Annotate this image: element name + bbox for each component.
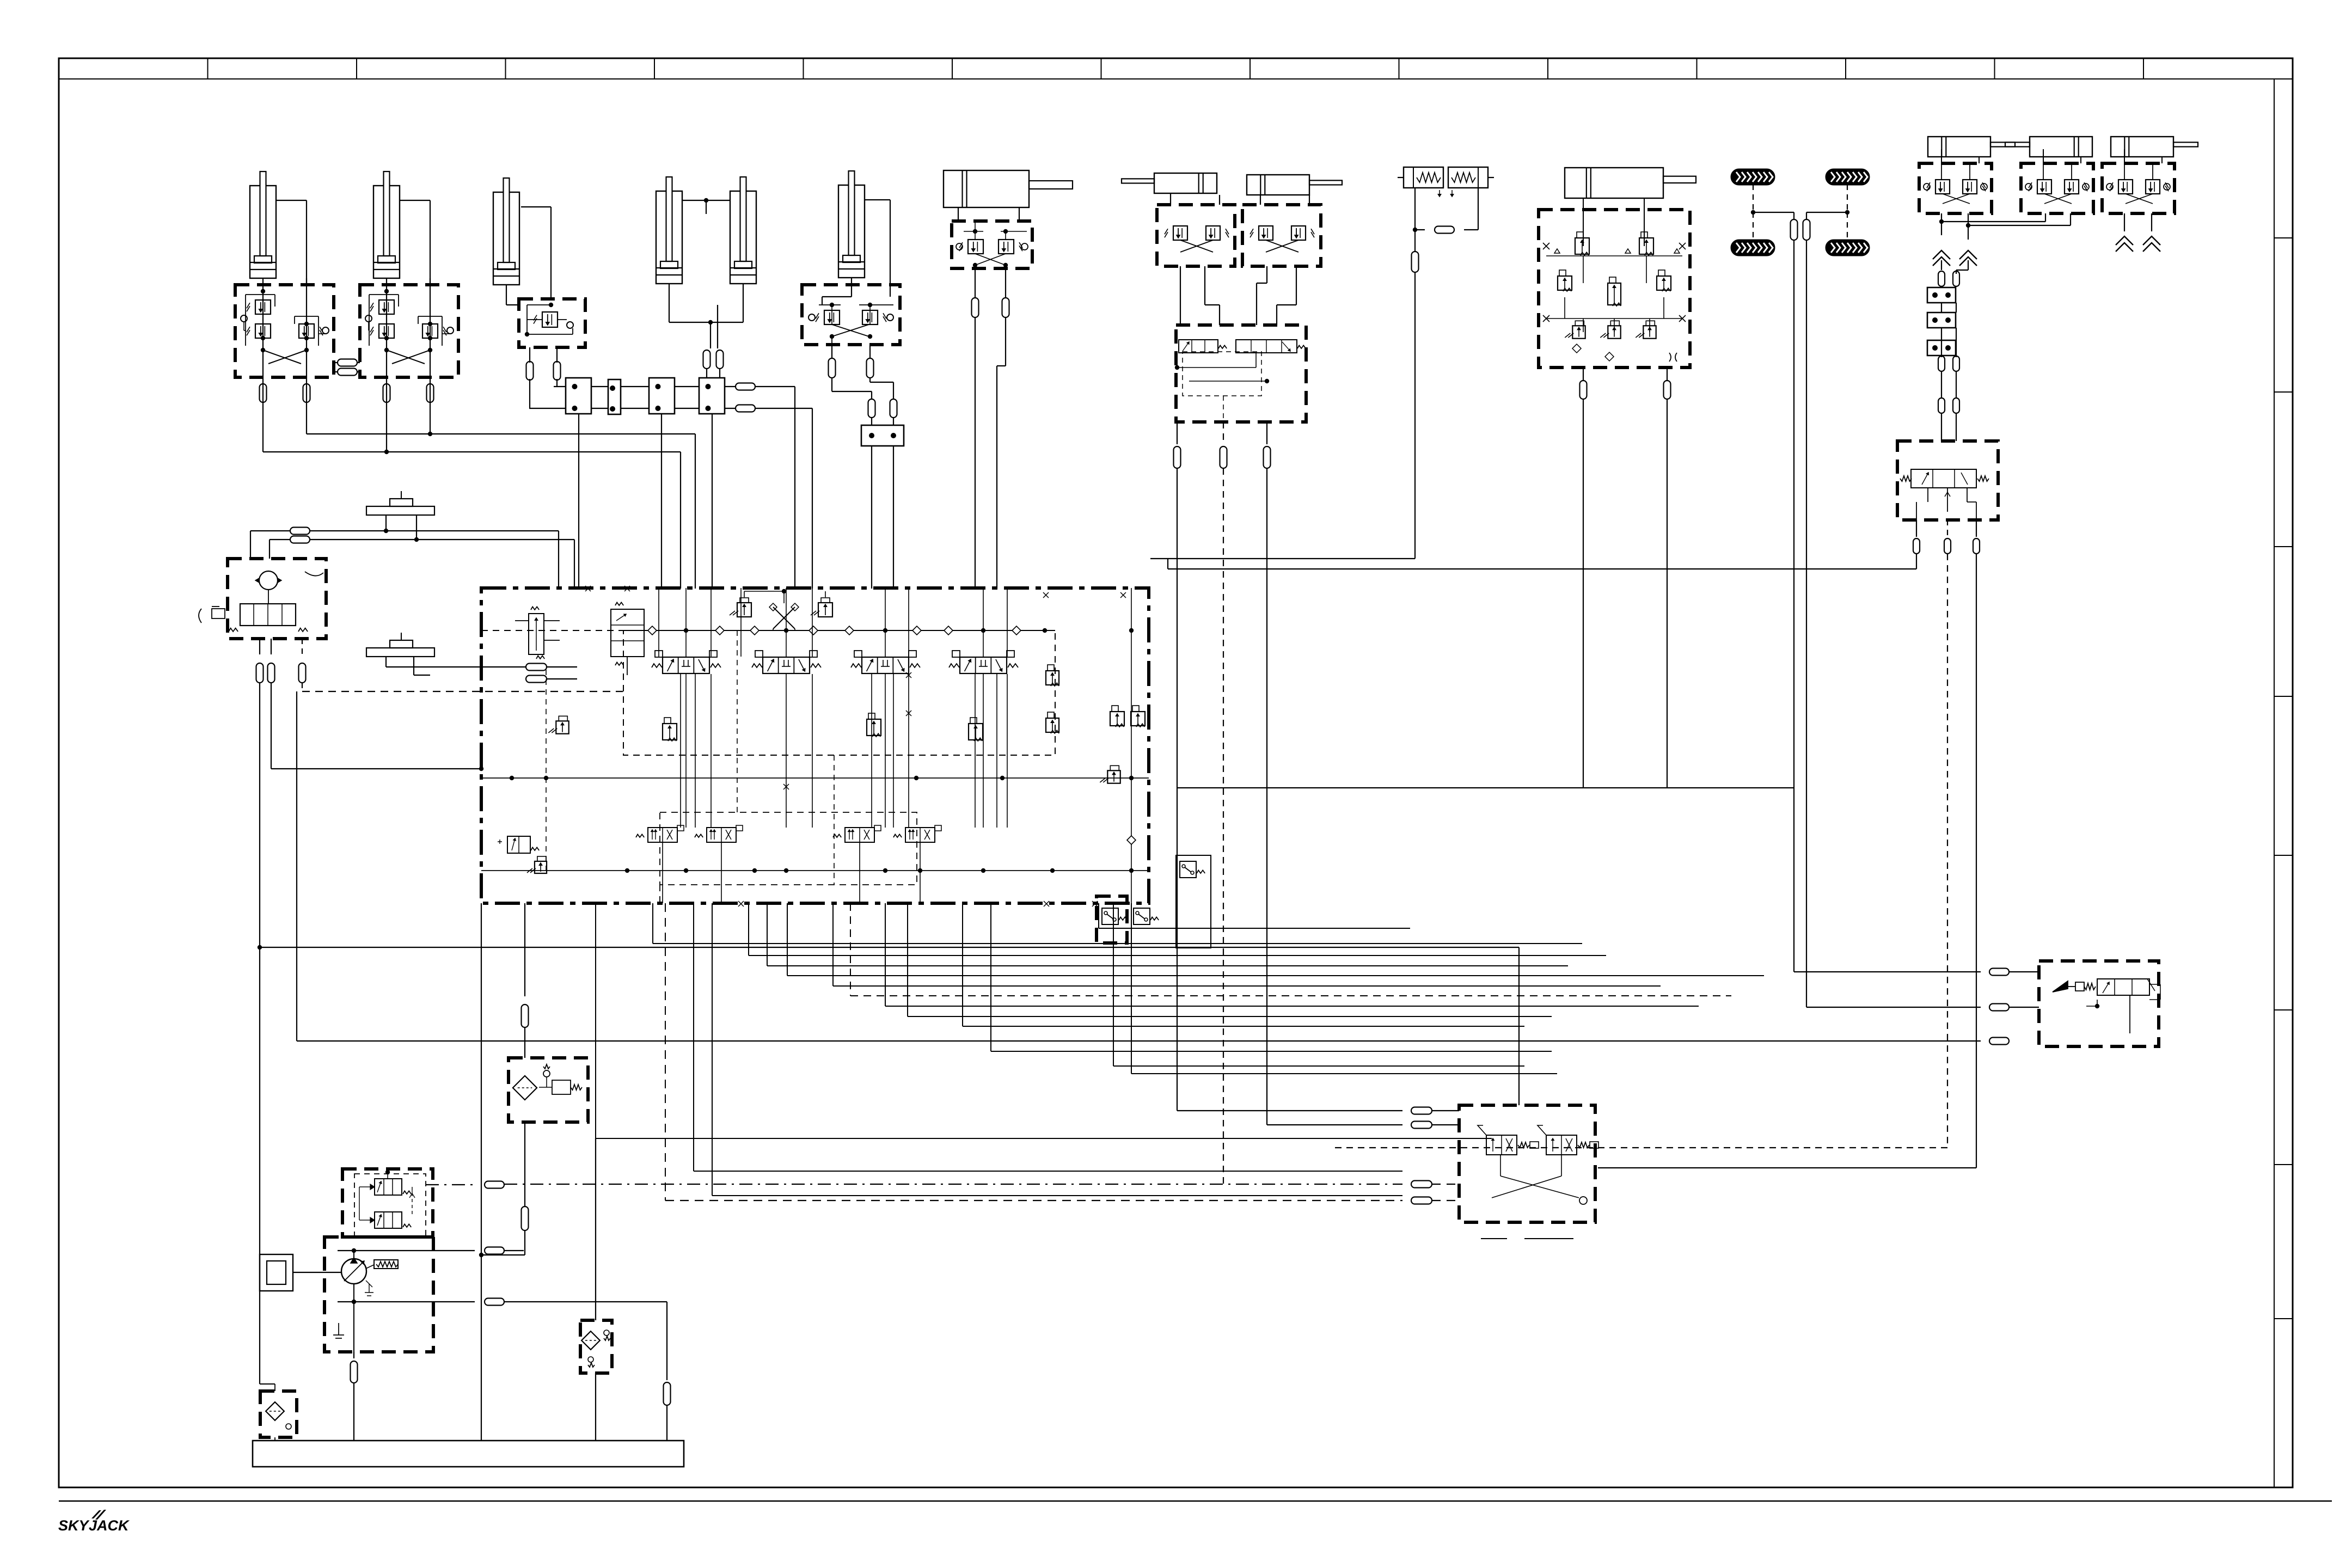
platform cylinder module PM3: [2102, 137, 2198, 213]
drive manifold drop lines: [1580, 367, 1671, 788]
brake release pump block I: [1459, 1105, 1598, 1222]
long wire manifold-brake: [1150, 559, 1916, 569]
coupler row feeds: [530, 408, 712, 589]
cylinder CYL9 (steer right): [1247, 175, 1342, 195]
cylinder CYL7: [944, 170, 1073, 207]
manifold SV2: [867, 713, 881, 737]
wire console to platform: [258, 691, 1981, 1105]
tire rear-left: [1826, 169, 1869, 185]
master cylinder T2: [366, 633, 577, 683]
console line joins strainer: [260, 1383, 275, 1385]
manifold fan-out wires: [596, 903, 1764, 1196]
engine motor box: [260, 1254, 341, 1291]
holding valve block V2: [360, 278, 458, 402]
platform console box: [199, 559, 326, 639]
pressure switch box PS1: [1097, 896, 1127, 943]
dual cylinder cross plumbing: [669, 188, 743, 348]
tire rear-right: [1826, 240, 1869, 255]
steer lines to selector: [1180, 266, 1296, 325]
return filter block: [580, 1320, 612, 1373]
manifold DCV2: [752, 651, 821, 673]
manifold relief RV3: [548, 716, 568, 733]
quick coupler QD2: [608, 379, 621, 414]
pump outlet line: [433, 1230, 524, 1254]
manifold bottom solenoid valves: [636, 825, 941, 842]
wire return riser: [595, 1138, 596, 1320]
long wire y1447: [1177, 787, 1794, 788]
pressure switch PS3: [1176, 855, 1211, 948]
wire CYL6 rod-side: [865, 200, 890, 297]
manifold relief RV1: [730, 598, 751, 617]
coupler QD5: [861, 418, 904, 589]
steer selector valve block F: [1175, 325, 1306, 422]
manifold SV5: [1046, 712, 1059, 733]
drive manifold block G: [1539, 198, 1690, 367]
right ruler strip: [2274, 79, 2293, 1487]
cylinder CYL10 (brake/axle float): [1565, 168, 1696, 198]
orifice under V3 right: [554, 347, 561, 387]
manifold inner dashed box: [623, 630, 1055, 755]
manifold long rails: [481, 776, 1149, 873]
V7 drop lines: [972, 267, 1009, 589]
platform cylinder module PM1: [1919, 137, 2015, 213]
svg-text:JACK: JACK: [89, 1517, 130, 1534]
manifold pilot x-marks: [585, 586, 1126, 906]
wire M2 to manifold: [384, 402, 432, 454]
wire HP filter down: [479, 1122, 529, 1257]
manifold cross lines: [744, 589, 825, 630]
platform cylinder module PM2: [2005, 137, 2093, 213]
manifold feed gallery: [481, 626, 1055, 635]
platform valve block J: [1897, 441, 1998, 520]
hydraulic tank: [253, 1441, 684, 1467]
manifold 4/3 valve top: [611, 602, 644, 675]
orifice under V3 left: [526, 347, 534, 408]
SKYJACK logo: [58, 1510, 130, 1534]
block J drop lines: [1334, 520, 1980, 1168]
manifold SV1: [663, 718, 677, 741]
bottom rule: [59, 1500, 2332, 1502]
quick coupler QD3: [649, 378, 675, 414]
pilot dashed line: [302, 691, 623, 692]
manifold relief RV2: [811, 598, 832, 617]
manifold internal drop wires: [546, 588, 1007, 903]
pump aux line: [433, 1298, 667, 1306]
V6 drop lines: [829, 336, 897, 418]
orifice under V2 right: [427, 384, 434, 402]
suction strainer box: [260, 1384, 297, 1441]
svg-text:SKY: SKY: [58, 1517, 90, 1534]
PM1 drop lines: [1933, 213, 2071, 274]
brake plumbing: [1412, 188, 1479, 559]
holding valve block V3: [519, 299, 585, 347]
cylinder CYL5 barrel: [730, 177, 756, 284]
manifold lower dashed box: [660, 812, 917, 903]
wire manifold corner to tank: [481, 903, 482, 1441]
cylinder CYL2 barrel: [373, 171, 400, 278]
orifice dual B: [716, 350, 724, 378]
pump suction to tank: [351, 1352, 358, 1441]
selector drop lines: [1174, 422, 1271, 1184]
orifices at pedal valve ports: [1794, 969, 2039, 1045]
cylinder CYL4 barrel: [656, 177, 682, 284]
high pressure filter block: [509, 1058, 588, 1122]
wire CYL2 rod-side: [400, 200, 430, 285]
PM3 breather chevrons: [2116, 213, 2160, 252]
steer valve block V9: [1242, 195, 1321, 266]
dashed riser for block I: [665, 903, 666, 1200]
manifold DCV3: [851, 651, 920, 673]
wire return filter to tank: [595, 1373, 596, 1441]
drive manifold edge marks: [1543, 243, 1686, 362]
cross-link orifices V1-V2: [334, 359, 360, 376]
top ruler ticks: [208, 58, 2144, 79]
wire manifold to HP filter: [522, 903, 529, 1058]
coupler bus lines: [529, 387, 736, 408]
brake chamber left: [1398, 167, 1443, 197]
manifold left-bottom valve: [498, 836, 547, 873]
wire M1 to manifold: [263, 402, 681, 589]
master cylinder T1: [250, 491, 574, 589]
manifold right section: [1100, 588, 1145, 903]
pedal valve block H: [2039, 961, 2160, 1046]
orifice dual A: [703, 350, 710, 378]
manifold 3-way valve left: [515, 607, 560, 659]
tire front-left: [1731, 169, 1774, 185]
wire M1b to manifold: [307, 402, 695, 589]
wire CYL3 ports: [506, 207, 551, 305]
orifice under V1 left: [260, 384, 267, 402]
wheel drive lines: [1751, 185, 1849, 1007]
pump control output: [426, 1181, 504, 1189]
manifold DCV4: [949, 651, 1018, 673]
pressure switch PS2: [1134, 908, 1159, 924]
wire CYL1 rod-side: [276, 200, 307, 285]
orifice under V1 right: [303, 384, 310, 402]
wire aux return to tank: [664, 1302, 671, 1441]
platform coupler column: [1927, 271, 1959, 441]
cylinder CYL8 (steer left): [1122, 173, 1217, 193]
brake chamber right: [1448, 167, 1494, 197]
main manifold block: [481, 588, 1149, 903]
quick coupler QD4: [699, 378, 725, 414]
cylinder CYL6 barrel: [838, 171, 865, 278]
orifice under V2 left: [383, 384, 390, 402]
cylinder CYL1 barrel: [250, 171, 276, 278]
block I port lines: [504, 1107, 1573, 1239]
holding valve block V1: [235, 278, 334, 402]
tire front-right: [1731, 240, 1774, 255]
holding valve block V6: [802, 278, 900, 345]
manifold DCV1: [652, 651, 721, 673]
pump control valve box: [342, 1169, 433, 1237]
holding valve block V7: [952, 207, 1032, 268]
orifice row exit bottom: [736, 405, 812, 589]
main pump block: [324, 1237, 433, 1352]
manifold SV3: [969, 718, 983, 741]
manifold SV4: [1046, 665, 1059, 686]
console drop lines: [256, 639, 484, 1384]
steer valve block V8: [1157, 193, 1235, 266]
quick coupler QD1: [566, 378, 591, 414]
cylinder CYL3 barrel: [493, 178, 519, 285]
orifice row exit top: [736, 383, 795, 589]
